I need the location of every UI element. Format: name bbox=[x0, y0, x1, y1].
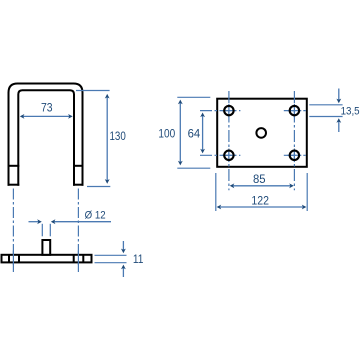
dimension 122 bbox=[216, 173, 307, 211]
U-bolt right leg bottom cap bbox=[73, 184, 84, 186]
U-bolt right leg thread line bbox=[73, 165, 84, 167]
hole bottom-right bbox=[290, 151, 299, 160]
hole bottom-left bbox=[224, 151, 233, 160]
U-bolt inner profile bbox=[18, 90, 74, 185]
dimension 13,5 bbox=[309, 89, 359, 133]
hole top-left bbox=[224, 106, 233, 115]
svg-text:Ø 12: Ø 12 bbox=[85, 210, 106, 222]
hole top-right bbox=[290, 106, 299, 115]
dimension diameter 12 bbox=[29, 210, 112, 237]
hole row centerline top-left bbox=[200, 110, 240, 112]
svg-text:100: 100 bbox=[158, 129, 175, 141]
U-bolt outer profile bbox=[9, 84, 83, 186]
svg-text:85: 85 bbox=[253, 174, 266, 186]
hole row centerline bottom-left bbox=[200, 154, 240, 156]
center hole bbox=[256, 128, 266, 138]
U-bolt left leg thread line bbox=[8, 165, 20, 167]
base plate right hole edge lines bbox=[73, 255, 75, 263]
dimension 130 bbox=[76, 91, 126, 187]
svg-text:73: 73 bbox=[41, 102, 53, 114]
hole row centerline top-right bbox=[284, 110, 306, 112]
U-bolt left leg bottom cap bbox=[8, 184, 20, 186]
hole column centerline left bbox=[228, 91, 230, 190]
svg-text:13,5: 13,5 bbox=[341, 106, 360, 118]
center pin bbox=[42, 240, 50, 255]
dimension 85 bbox=[230, 174, 294, 188]
svg-text:130: 130 bbox=[110, 129, 126, 143]
solid centerline segments across holes bbox=[222, 104, 301, 162]
dimension 100 bbox=[158, 97, 210, 168]
hole column centerline right bbox=[293, 91, 295, 190]
top plate view bbox=[217, 99, 307, 167]
dimension 64 bbox=[188, 113, 205, 154]
base plate left hole edge lines bbox=[8, 255, 10, 263]
left leg centerline bbox=[12, 189, 14, 273]
solid centerline segments through side-view plate bbox=[13, 251, 78, 266]
base plate side view bbox=[2, 255, 92, 263]
dimension 73 bbox=[20, 102, 73, 119]
hole row centerline bottom-right bbox=[284, 154, 306, 156]
svg-text:64: 64 bbox=[188, 129, 201, 141]
dimension 11 bbox=[95, 241, 144, 277]
svg-text:122: 122 bbox=[251, 195, 269, 207]
svg-text:11: 11 bbox=[133, 254, 144, 266]
right leg centerline bbox=[77, 189, 79, 273]
